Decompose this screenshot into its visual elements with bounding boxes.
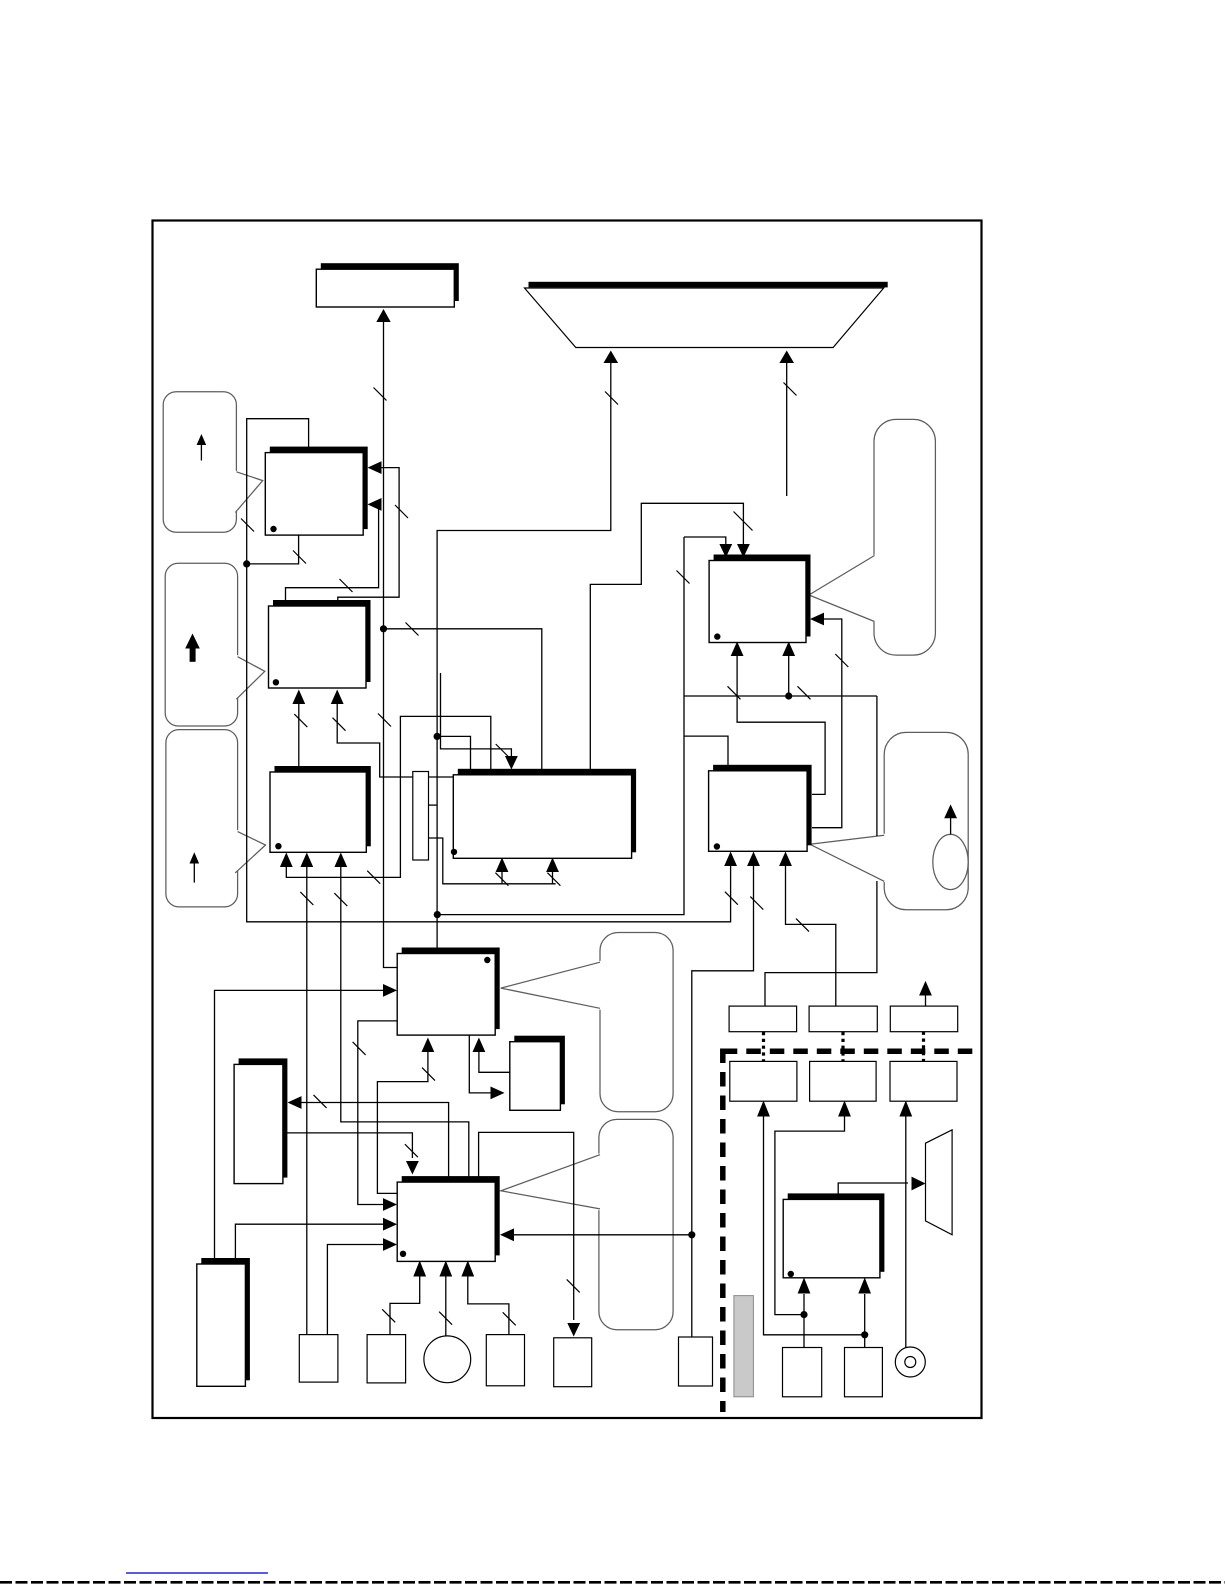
box U9 (small, right of U8, shadowed) (510, 1036, 565, 1111)
R4 (730, 1061, 797, 1101)
bus slash: U11 top arrow stem (405, 1144, 418, 1157)
box A (upper left, shadowed) (265, 447, 367, 535)
wire: box C bottom pin1 arrow, gray route up over pipe into box D top (286, 716, 491, 877)
wire: V2 junction right and down into box D top (384, 629, 542, 771)
box U8 (center, shadowed, dot top-right) (397, 948, 500, 1036)
bus slash: P5 stem (567, 1279, 580, 1292)
wire: dangling feed with arrow down into box D top (441, 673, 512, 758)
callout bubble S6 (right of box U8) (501, 933, 673, 1112)
bus slash: P2 stem (382, 1309, 395, 1322)
bus slash: U8 bottom stem (422, 1068, 435, 1081)
box C (left lower, shadowed) (270, 766, 371, 852)
arrow above ellipse (950, 817, 952, 835)
wire: box U11 top to arrow down into bottom box P5 top (479, 1132, 574, 1320)
bus slash: U7 stem1 (725, 892, 738, 905)
bus slash: V2 lower (378, 714, 391, 727)
wire: V3 junction jog into box D top (437, 736, 470, 770)
bottom box P4 (486, 1335, 524, 1386)
bus slash: W5 (406, 623, 419, 636)
callout bubble S5 (right of box U7, with ellipse) (810, 732, 968, 909)
wire: node y696 up arrow into box U6 bottom pin2 (788, 655, 790, 696)
box U7 (right middle, shadowed) (709, 765, 812, 852)
wire V2: arrow into top box, long rail down into U8 left (384, 321, 398, 968)
wire: box B bottom pin1 arrow from box C top (298, 703, 300, 766)
bus slash: U6 top pin2 wire (734, 512, 753, 531)
box12 (tall narrow bottom left, shadowed) (197, 1258, 250, 1386)
wire: x684 top corner right, arrow down into box U6 top pin1 (684, 537, 726, 546)
wire: box U7 bottom arrow3 stem down-right into R2 top (786, 864, 836, 1006)
wire: R6 arrow stem down to washer circle (905, 1116, 907, 1348)
bus slash: V1 (241, 519, 254, 532)
wire: box12 top second rail, arrow into box U11 left pin2 (235, 1224, 392, 1259)
bus slash: trap stem1 (605, 392, 618, 405)
bus slash: box B pin2 stem (333, 718, 346, 731)
box U11 (center lower, shadowed) (397, 1176, 500, 1261)
wire: box U9 left pin1 left and arrow up into box U8 bottom (479, 1051, 510, 1072)
wire: box D top to box U6 top pin2 (arrow down) (590, 503, 743, 770)
bus slash: box D bottom stem2 (547, 873, 560, 886)
wire: box C bottom pin2 arrow, long rail down into bottom box P1 top (306, 866, 308, 1335)
bottom box P1 (299, 1335, 338, 1383)
box D (wide center, shadowed) (451, 769, 636, 859)
callout bubble S7 (right of box U11) (501, 1119, 673, 1329)
wire: box12 top rail up, arrow into box U8 left pin1 (215, 990, 393, 1259)
bus slash: box B pin1 stem (294, 714, 307, 727)
dotted link R2 to R5 (841, 1032, 844, 1061)
box U6 (right upper, shadowed) (709, 555, 810, 643)
trapezoid (top, with shadow bar) (525, 282, 888, 348)
wire L1: V3 junction to right rail x684 (437, 537, 684, 915)
wire: R4 arrow stem down to junction on B1 column (764, 1116, 865, 1335)
box10 (tall narrow, shadowed) (234, 1058, 287, 1183)
footer blue underline (126, 1572, 268, 1574)
box13 (in dashed area, shadowed) (783, 1193, 884, 1277)
washer circles (dashed area) (895, 1347, 925, 1377)
wire: box B top to box A right pin2 (286, 504, 379, 602)
wire: R1 top up to node rail (765, 881, 877, 1006)
wire: bottom box P2 top rail, arrow up into box U11 bottom pin1 (390, 1276, 420, 1334)
bus slash: osc stem (439, 1312, 452, 1325)
wire: B1 column up arrow into box13 bottom (803, 1294, 805, 1348)
wire: box D bottom arrow 2 (552, 871, 554, 884)
wire: circle osc top, arrow up into box U11 bottom pin2 (445, 1276, 447, 1336)
bus slash: U6 right wire (835, 654, 848, 667)
wire: box U8 bottom arrow stem down-left into box U11 left top corner (377, 1051, 428, 1193)
wire: box U8 left pin2 rail down, arrow into box U11 left pin1 (358, 1021, 398, 1205)
bus slash: y696 net b (798, 686, 811, 699)
bus slash: U7 stem2 (750, 897, 763, 910)
wire: trapezoid arrow 2 stem (786, 362, 788, 496)
bus slash: box D bottom stem1 (495, 873, 508, 886)
callout bubble S1 (top left) (163, 392, 263, 533)
dotted link R1 to R4 (762, 1032, 765, 1061)
R2 (809, 1006, 877, 1032)
wire: arrow into box U6 right pin, down to U7 right pin2 (812, 619, 842, 828)
wire: pipe lower stub to box D bottom arrow bus (429, 838, 556, 884)
bus slash: P4 stem (503, 1312, 516, 1325)
wire: x684 branch into box U7 top (684, 736, 728, 766)
wire: bottom box P4 top rail, arrow up into box U11 bottom pin3 (468, 1276, 509, 1335)
bottom box P5 (554, 1338, 592, 1387)
wire: box D bottom arrow 1 (501, 871, 503, 884)
wire: box U8 bottom down, arrow into box U9 left pin2 (469, 1035, 500, 1093)
bus slash: box D top arrow wire (496, 744, 509, 757)
bottom box PL (679, 1337, 713, 1386)
R3 (890, 1006, 957, 1032)
R1 (729, 1006, 797, 1032)
bus slash: V2 upper (374, 388, 387, 401)
pipe (tall narrow rect left of box D) (413, 772, 429, 861)
bus slash: trap stem2 (784, 383, 797, 396)
wire: box B bottom pin2 arrow from box D left (337, 703, 453, 777)
wire: box A bottom to V1 junction (247, 535, 299, 564)
diagram outer border (153, 221, 982, 1419)
callout bubble S2 (left middle) (165, 563, 265, 726)
wire: node y696 right corner down to S5 tail (876, 696, 878, 836)
wire: trapezoid arrow 1 stem, left run and V3 rail down into U8 top (437, 362, 611, 948)
bus slash: box C stem2 (300, 892, 313, 905)
gray bar (734, 1296, 754, 1397)
R6 (890, 1061, 957, 1101)
wire: box U6 bottom pin1 arrow up, route to U7 right pin1 (737, 655, 825, 794)
box B2 (dashed area) (845, 1348, 883, 1397)
ellipse inside S5 (933, 834, 968, 889)
bottom circle oscillator (424, 1336, 471, 1383)
wire: box U7 bottom arrow2 stem down-left rail into small box PL top (692, 864, 754, 1337)
bus slash: box A pin1 wire (395, 505, 408, 518)
wire: box10 right pin2, arrow down into box U11 top (287, 1133, 412, 1158)
footer dashed rule (0, 1581, 1225, 1584)
R5 (810, 1061, 877, 1101)
bus slash: gray bus (367, 871, 380, 884)
wire: pipe right stub to V3 (429, 804, 438, 806)
dotted link R3 to R6 (922, 1032, 925, 1062)
wire: node to arrow into box U11 right pin (505, 1234, 692, 1236)
wire: arrow into box10 right pin1, from rail down into box U11 top (292, 1103, 449, 1177)
bus slash: U8-U11 rail (353, 1042, 366, 1055)
dashed partition line vertical (720, 1049, 726, 1413)
bus slash: x684 rail (677, 571, 690, 584)
wire: dangling up arrow above R3 (925, 995, 927, 1008)
wire: box13 top to arrow right into flag (838, 1183, 908, 1195)
top box (wide, with shadow) (316, 263, 459, 307)
box B (left middle, shadowed) (269, 600, 371, 688)
bottom box P2 (367, 1335, 406, 1383)
wire: R5 arrow stem route to junction on B1 column (775, 1116, 845, 1315)
wire: bottom box P1 top rail up, arrow into box U11 left pin3 (327, 1245, 392, 1335)
box B1 (dashed area) (783, 1348, 822, 1397)
bus slash: y696 net a (728, 686, 741, 699)
bus slash: box A pin2 wire (340, 579, 353, 592)
wire: x684 branch to net node at y696 going right (684, 695, 877, 697)
bus slash: box C stem3 (334, 893, 347, 906)
callout bubble S4 (right of box U6) (809, 419, 936, 655)
wire V1: box A top feed, down left rail to bus L2 into U7 bottom arrow (247, 419, 731, 922)
flag shape (vertical trapezoid) (926, 1130, 953, 1235)
callout bubble S3 (left lower) (166, 730, 266, 907)
wire: box C bottom pin3 arrow, rail down then right into box U11 top (341, 866, 469, 1177)
bus slash: U7 stem3 (796, 919, 809, 932)
wire: box B top to box A right pin1 (338, 468, 399, 603)
wire: B2 column up arrow into box13 bottom (864, 1294, 866, 1348)
bus slash: box A bottom wire (293, 551, 306, 564)
dashed partition line horizontal (723, 1048, 980, 1054)
bus slash: box10 pin1 wire (314, 1095, 327, 1108)
